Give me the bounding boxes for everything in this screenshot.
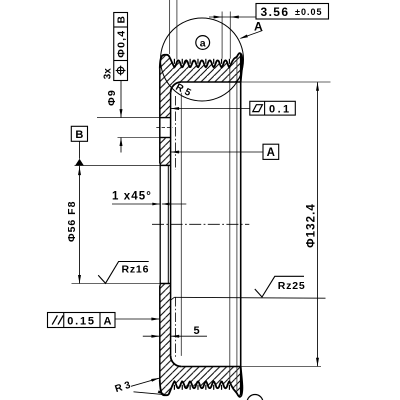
svg-text:3x: 3x xyxy=(102,68,113,80)
svg-text:1 x45°: 1 x45° xyxy=(112,191,152,203)
svg-text:Rz16: Rz16 xyxy=(122,263,150,275)
svg-text:Rz25: Rz25 xyxy=(278,280,306,292)
svg-text:0.15: 0.15 xyxy=(67,315,96,327)
svg-text:A: A xyxy=(267,147,275,159)
svg-text:±0.05: ±0.05 xyxy=(295,7,322,17)
svg-text:5: 5 xyxy=(193,325,199,337)
svg-text:3.56: 3.56 xyxy=(261,5,290,19)
svg-text:a: a xyxy=(200,38,206,50)
svg-text:Φ56 F8: Φ56 F8 xyxy=(66,201,78,242)
svg-text:A: A xyxy=(254,20,263,34)
svg-text:B: B xyxy=(116,16,127,23)
svg-text:0.1: 0.1 xyxy=(269,104,292,116)
svg-text:B: B xyxy=(75,129,83,141)
svg-text:Φ9: Φ9 xyxy=(106,89,118,106)
svg-text:Φ132.4: Φ132.4 xyxy=(306,203,318,248)
svg-text:Φ0,4: Φ0,4 xyxy=(115,30,127,58)
svg-text:A: A xyxy=(104,315,112,327)
